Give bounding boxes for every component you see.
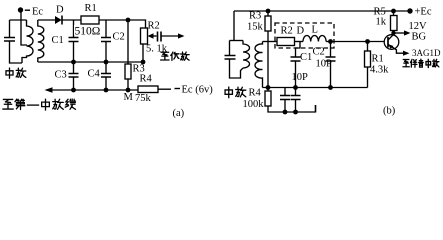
svg-text:Ec (6v): Ec (6v) [182,85,214,96]
svg-text:3AG1D: 3AG1D [412,48,441,58]
svg-text:1k: 1k [376,17,387,28]
svg-text:15k: 15k [247,22,264,33]
svg-text:C1: C1 [52,35,64,46]
svg-text:M: M [124,92,134,103]
svg-text:10P: 10P [292,72,309,83]
svg-text:Ec: Ec [32,7,43,18]
svg-text:BG: BG [412,32,427,43]
svg-text:C4: C4 [88,69,101,80]
svg-text:R1: R1 [85,3,97,14]
svg-text:+Ec: +Ec [415,7,432,18]
svg-text:75k: 75k [135,93,152,104]
svg-text:R2: R2 [281,26,293,37]
svg-text:R1: R1 [372,54,384,65]
svg-text:(a): (a) [173,108,185,118]
svg-text:D: D [56,5,64,16]
svg-text:12V: 12V [409,21,428,32]
svg-text:R2: R2 [148,21,160,32]
svg-text:D: D [297,26,305,37]
svg-text:R4: R4 [249,88,262,99]
svg-text:C3: C3 [55,70,67,81]
svg-text:4.3k: 4.3k [370,65,389,76]
svg-text:C1: C1 [300,52,312,63]
svg-text:100k: 100k [243,99,265,110]
svg-text:C2: C2 [113,32,125,43]
svg-text:(b): (b) [383,106,396,117]
svg-text:510Ω: 510Ω [75,26,101,38]
svg-text:10P: 10P [316,59,333,70]
svg-text:R4: R4 [140,74,153,85]
svg-text:R3: R3 [249,11,261,22]
svg-text:L: L [312,25,318,36]
svg-text:C2: C2 [313,47,325,58]
